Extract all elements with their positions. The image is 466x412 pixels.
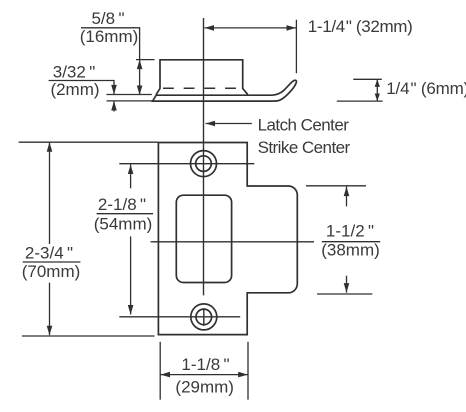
svg-text:(16mm): (16mm) bbox=[80, 27, 139, 46]
strike plate outline bbox=[158, 143, 297, 335]
dim 2-3/4 line segments bbox=[49, 142, 51, 244]
screw hole top bbox=[191, 151, 217, 177]
dim 3/32: leader + arrows bbox=[49, 81, 114, 95]
1-1/4 left arrow bbox=[205, 25, 215, 31]
svg-text:Latch Center: Latch Center bbox=[258, 116, 350, 135]
1/4 down arrow bbox=[375, 94, 380, 102]
3/32 down arrow bbox=[111, 85, 117, 95]
latch center arrow bbox=[206, 121, 216, 127]
extension line: plate top level to far left bbox=[19, 141, 158, 143]
dim 5/8: leader + vertical dimension line bbox=[81, 28, 140, 95]
2-1/8 up arrow bbox=[128, 165, 134, 175]
top hole centre line (horizontal) bbox=[119, 163, 254, 165]
screw hole bottom bbox=[191, 304, 217, 330]
svg-text:(54mm): (54mm) bbox=[94, 215, 153, 234]
extension tick: latch body top (5/8 dim) bbox=[136, 59, 155, 61]
extension lines: faceplate thickness (left of side view) bbox=[107, 94, 152, 96]
3/32 up arrow bbox=[111, 101, 117, 111]
extension line: 1-1/4 right bbox=[295, 20, 297, 73]
dim 1-1/2 line segments bbox=[346, 187, 348, 207]
latch body (side view collar) bbox=[156, 60, 248, 95]
latch hidden dashed line bbox=[163, 87, 236, 89]
5/8 up arrow bbox=[137, 60, 143, 70]
svg-text:1/4 " (6mm): 1/4 " (6mm) bbox=[386, 79, 466, 98]
fraction bar 2-1/8 bbox=[97, 213, 153, 215]
1-1/2 down arrow bbox=[344, 283, 350, 293]
1-1/4 right arrow bbox=[287, 25, 297, 31]
extension lines: 1/4 (6mm) bbox=[353, 78, 382, 80]
extension lines: 1-1/2 tab bbox=[306, 185, 366, 187]
horizontal centerline (strike center) bbox=[151, 241, 314, 243]
2-3/4 down arrow bbox=[47, 326, 53, 336]
svg-text:5/8 ": 5/8 " bbox=[91, 9, 124, 28]
svg-text:Strike Center: Strike Center bbox=[258, 138, 351, 157]
svg-text:(29mm): (29mm) bbox=[175, 378, 234, 397]
latch opening cutout bbox=[176, 195, 231, 282]
vertical centerline (latch/strike center) bbox=[203, 18, 205, 295]
svg-text:(38mm): (38mm) bbox=[321, 241, 380, 260]
latch faceplate edge-on with lip bbox=[153, 80, 297, 101]
dim 1/4 line bbox=[376, 79, 378, 101]
fraction bar 1-1/2 bbox=[322, 241, 380, 243]
svg-text:2-3/4 ": 2-3/4 " bbox=[25, 244, 73, 263]
svg-text:1-1/8 ": 1-1/8 " bbox=[181, 355, 229, 374]
1-1/8 left arrow bbox=[161, 372, 171, 378]
latch center leader bbox=[206, 123, 252, 125]
svg-text:2-1/8 ": 2-1/8 " bbox=[98, 195, 146, 214]
1-1/2 up arrow bbox=[344, 187, 350, 197]
dim 1-1/8 line bbox=[161, 374, 248, 376]
1-1/8 right arrow bbox=[238, 372, 248, 378]
svg-text:(70mm): (70mm) bbox=[22, 262, 81, 281]
dim 2-1/8 line segments bbox=[130, 165, 132, 189]
extension line: plate bottom level to far left bbox=[22, 335, 155, 337]
5/8 down arrow bbox=[137, 86, 143, 96]
svg-text:1-1/4 " (32mm): 1-1/4 " (32mm) bbox=[308, 17, 413, 36]
extension lines: 1-1/8 bottom bbox=[159, 342, 161, 400]
fraction bar 2-3/4 bbox=[23, 261, 81, 263]
1/4 up arrow bbox=[375, 79, 380, 87]
2-3/4 up arrow bbox=[47, 142, 53, 152]
bottom hole centre line (horizontal) bbox=[119, 316, 240, 318]
2-1/8 down arrow bbox=[128, 305, 134, 315]
svg-text:(2mm): (2mm) bbox=[50, 80, 99, 99]
bottom hole vertical center tick bbox=[203, 308, 205, 326]
svg-text:3/32 ": 3/32 " bbox=[53, 63, 96, 82]
svg-text:1-1/2 ": 1-1/2 " bbox=[326, 222, 374, 241]
dim 1-1/4 line bbox=[205, 27, 297, 29]
